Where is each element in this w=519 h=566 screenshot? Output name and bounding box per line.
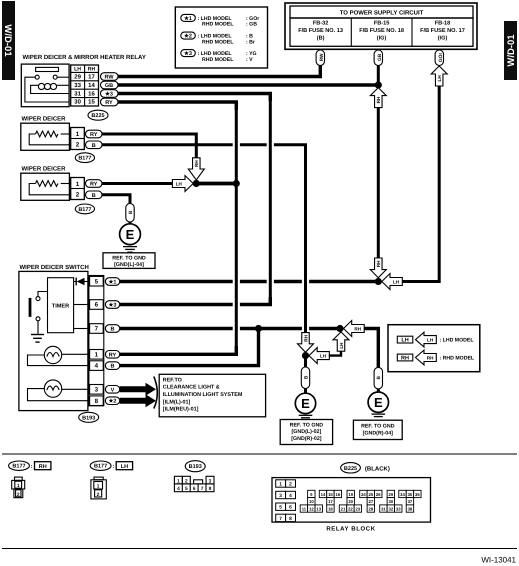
svg-text:★1: ★1 bbox=[109, 279, 117, 286]
connector B177 LH view bbox=[90, 461, 132, 499]
svg-text:[GND(L)-02]: [GND(L)-02] bbox=[292, 429, 322, 435]
svg-text:1: 1 bbox=[279, 481, 282, 487]
pin label star3 relay pin 31/16 bbox=[101, 90, 119, 98]
node pin4-pin7 junction bbox=[255, 325, 262, 332]
svg-text:: V: : V bbox=[246, 57, 253, 63]
svg-text::: : bbox=[31, 464, 33, 470]
svg-text:W/D-01: W/D-01 bbox=[506, 34, 517, 67]
pin label B switch pin 4 bbox=[105, 362, 119, 370]
svg-text:★1: ★1 bbox=[184, 15, 192, 22]
svg-text:REF. TO GND: REF. TO GND bbox=[290, 422, 324, 428]
svg-text:RY: RY bbox=[90, 132, 98, 138]
wire resistor right lead to pin 1 bbox=[61, 133, 71, 135]
svg-text:25: 25 bbox=[368, 492, 373, 497]
svg-text:RHD MODEL: RHD MODEL bbox=[202, 57, 234, 63]
svg-text:14: 14 bbox=[321, 492, 326, 497]
wire timer to pin 7 bbox=[74, 328, 90, 330]
svg-text:LH: LH bbox=[401, 338, 408, 344]
svg-text:36: 36 bbox=[415, 492, 420, 497]
svg-text:GOr: GOr bbox=[438, 53, 444, 62]
legend box star notes bbox=[175, 7, 267, 68]
wire relay right contact to RW row bbox=[57, 76, 69, 78]
svg-text:2: 2 bbox=[76, 142, 80, 149]
svg-text:WIPER DEICER & MIRROR HEATER R: WIPER DEICER & MIRROR HEATER RELAY bbox=[23, 54, 146, 61]
resistor element wiper deicer RH bbox=[36, 131, 58, 137]
svg-text:E: E bbox=[301, 396, 310, 411]
ref box clearance light & illumination light system bbox=[159, 374, 265, 417]
svg-text:LH: LH bbox=[176, 182, 183, 187]
svg-text:TO POWER SUPPLY CIRCUIT: TO POWER SUPPLY CIRCUIT bbox=[340, 10, 424, 17]
svg-text:2: 2 bbox=[97, 492, 100, 498]
svg-text:LH: LH bbox=[74, 67, 81, 73]
indicator lamp 1 bbox=[28, 346, 90, 365]
wire coil right to GB row bbox=[57, 84, 70, 86]
svg-text:6: 6 bbox=[289, 505, 292, 511]
svg-text:CLEARANCE LIGHT &: CLEARANCE LIGHT & bbox=[163, 385, 220, 391]
wire crossover casings bbox=[233, 110, 240, 346]
wiper deicer LH box bbox=[21, 173, 70, 200]
svg-text:6: 6 bbox=[95, 302, 99, 309]
node star1 feed junction bbox=[375, 278, 382, 285]
illumination lamp 2 bbox=[28, 380, 90, 401]
svg-text:RH: RH bbox=[354, 327, 361, 332]
svg-text:(B): (B) bbox=[317, 34, 325, 41]
svg-text:F/B FUSE NO. 18: F/B FUSE NO. 18 bbox=[359, 27, 404, 34]
wire GB fuse no.18 to relay 33/14 bbox=[377, 66, 380, 86]
svg-text:16: 16 bbox=[336, 492, 341, 497]
svg-text:26: 26 bbox=[376, 492, 381, 497]
svg-text:(IG): (IG) bbox=[377, 34, 387, 41]
svg-text:1: 1 bbox=[17, 483, 20, 489]
wire RY relay 30/15 to switch pin 1 bbox=[118, 102, 236, 354]
svg-text:FB-15: FB-15 bbox=[374, 20, 390, 26]
svg-text:1: 1 bbox=[97, 484, 100, 490]
pin label star1 switch pin 5 bbox=[105, 278, 119, 286]
ground E2 GND(R)-04 bbox=[353, 389, 402, 440]
svg-text:RH: RH bbox=[39, 464, 47, 470]
wire RY deicer LH pin 1 bbox=[102, 182, 172, 185]
wire resistor left lead to pin 2 bbox=[29, 184, 70, 195]
svg-text:REF. TO GND: REF. TO GND bbox=[112, 255, 146, 261]
svg-text:4: 4 bbox=[289, 493, 292, 499]
svg-text:WIPER DEICER: WIPER DEICER bbox=[22, 116, 67, 123]
svg-text:[GND(R)-02]: [GND(R)-02] bbox=[291, 436, 322, 442]
page tab W/D-01 top-right bbox=[504, 21, 517, 80]
svg-text:RH: RH bbox=[376, 96, 381, 103]
svg-text:2: 2 bbox=[289, 481, 292, 487]
pin label RY deicer LH pin 1 bbox=[86, 180, 103, 188]
svg-text:1: 1 bbox=[95, 351, 99, 358]
pin label GB fuse drop bbox=[374, 50, 383, 66]
pin label B deicer LH pin 2 bbox=[86, 191, 103, 199]
svg-text:RH: RH bbox=[303, 334, 308, 341]
wire star1 switch pin 5 feed bbox=[120, 280, 379, 283]
deicer LH pin block bbox=[71, 178, 85, 200]
wire arrow to illumination system pin 3 bbox=[120, 383, 156, 396]
svg-text:5: 5 bbox=[95, 278, 99, 285]
svg-text:LH: LH bbox=[393, 280, 400, 285]
svg-text:RH: RH bbox=[88, 67, 96, 73]
pin label B (ground junction wire) bbox=[301, 356, 309, 389]
svg-text:B: B bbox=[111, 327, 115, 333]
svg-text:GB: GB bbox=[377, 53, 383, 61]
arrow LH left (GOr to star1 feed) bbox=[382, 274, 403, 290]
separator line bbox=[2, 453, 517, 455]
svg-text:7: 7 bbox=[95, 326, 99, 333]
wire relay left contact to RY row bbox=[25, 77, 69, 102]
wiper deicer switch SW1 box bbox=[19, 271, 88, 410]
connector B225 label bbox=[88, 110, 108, 120]
svg-text:18: 18 bbox=[328, 506, 333, 511]
svg-text:LH: LH bbox=[121, 464, 128, 470]
connector B177 label (LH deicer) bbox=[75, 204, 94, 214]
ground symbol inside switch bbox=[31, 335, 44, 343]
arrow RH down (star1 feed) bbox=[370, 258, 386, 278]
node pin7 RH/LH junction bbox=[336, 325, 343, 332]
svg-text:LH: LH bbox=[339, 342, 344, 349]
pin label V switch pin 3 bbox=[105, 386, 119, 394]
svg-text:: RHD MODEL: : RHD MODEL bbox=[440, 356, 475, 362]
svg-text:5: 5 bbox=[279, 505, 282, 511]
svg-text:RH: RH bbox=[194, 160, 199, 167]
arrow RH up (GB feed top) bbox=[370, 88, 386, 108]
svg-text:31: 31 bbox=[381, 506, 386, 511]
svg-text:B: B bbox=[111, 364, 115, 370]
wire junction link redraw bbox=[196, 182, 236, 185]
pin label B switch pin 7 bbox=[105, 325, 119, 333]
svg-text:B: B bbox=[376, 376, 382, 380]
svg-text:RH: RH bbox=[401, 355, 409, 361]
legend box LH/RH model bbox=[388, 325, 480, 372]
arrow LH left (ground junction) bbox=[309, 348, 329, 364]
svg-text:★2: ★2 bbox=[184, 33, 192, 40]
svg-text:[GND(R)-04]: [GND(R)-04] bbox=[363, 431, 394, 437]
pin label GB relay pin 33/14 bbox=[101, 81, 119, 89]
node ground junction bbox=[302, 352, 309, 359]
wire junction link node RY bbox=[196, 182, 236, 185]
wire RY deicer RH pin 1 bbox=[102, 134, 196, 158]
pin label RY deicer RH pin 1 bbox=[86, 130, 103, 138]
wiper deicer RH box bbox=[21, 123, 70, 150]
svg-text:8: 8 bbox=[95, 398, 99, 405]
resistor element wiper deicer LH bbox=[36, 181, 58, 187]
connector B225 (BLACK) relay block view bbox=[272, 463, 431, 533]
svg-text:7: 7 bbox=[279, 516, 282, 522]
svg-text:30: 30 bbox=[74, 99, 81, 106]
bottom rule bbox=[2, 548, 517, 550]
svg-text:4: 4 bbox=[177, 486, 180, 492]
svg-text:19: 19 bbox=[348, 492, 353, 497]
wire B deicer RH pin 2 to ground bbox=[102, 145, 306, 333]
pin label star3 switch pin 6 bbox=[105, 301, 119, 309]
node RY deicer junction B bbox=[233, 180, 240, 187]
svg-text:F/B FUSE NO. 13: F/B FUSE NO. 13 bbox=[298, 27, 343, 34]
svg-text:22: 22 bbox=[348, 506, 353, 511]
svg-text::: : bbox=[112, 464, 114, 470]
svg-text:[GND(L)-04]: [GND(L)-04] bbox=[114, 262, 144, 268]
node RY deicer junction A bbox=[193, 180, 200, 187]
svg-text:RW: RW bbox=[104, 74, 114, 80]
svg-text:6: 6 bbox=[193, 486, 196, 492]
svg-text:15: 15 bbox=[328, 492, 333, 497]
svg-text:B225: B225 bbox=[344, 466, 357, 472]
svg-text:17: 17 bbox=[88, 74, 95, 81]
svg-text:RY: RY bbox=[90, 182, 98, 188]
svg-text:RY: RY bbox=[105, 100, 113, 106]
svg-text:29: 29 bbox=[74, 74, 81, 81]
svg-text:V: V bbox=[111, 387, 115, 393]
connector B177 RH view bbox=[9, 461, 51, 498]
switch contact S1 bbox=[30, 292, 48, 335]
arrow LH right (deicer LH junction) bbox=[172, 176, 193, 192]
wire GOr LH feed down bbox=[402, 86, 439, 282]
svg-text:RHD MODEL: RHD MODEL bbox=[202, 39, 234, 45]
svg-text:LH: LH bbox=[437, 75, 442, 82]
wire RW fuse no.13 to relay 29/17 bbox=[118, 66, 320, 77]
relay fixed contact bar bbox=[36, 67, 59, 71]
svg-text:RH: RH bbox=[427, 356, 434, 361]
svg-text:28: 28 bbox=[368, 506, 373, 511]
power supply box TO POWER SUPPLY CIRCUIT bbox=[285, 3, 477, 49]
pin label star2 switch pin 8 bbox=[105, 397, 119, 405]
relay pin table LH/RH bbox=[71, 65, 99, 106]
svg-text:7: 7 bbox=[201, 486, 204, 492]
svg-text:31: 31 bbox=[74, 90, 81, 97]
wire B switch pin 4 bbox=[120, 329, 259, 366]
svg-text:2: 2 bbox=[17, 492, 20, 498]
svg-text:B: B bbox=[303, 375, 309, 379]
svg-text:WIPER DEICER SWITCH: WIPER DEICER SWITCH bbox=[20, 264, 89, 271]
svg-text:17: 17 bbox=[328, 499, 333, 504]
svg-text:(BLACK): (BLACK) bbox=[365, 465, 390, 472]
svg-text:3: 3 bbox=[279, 493, 282, 499]
pin label B (deicer LH ground wire) bbox=[126, 204, 134, 223]
svg-text:B193: B193 bbox=[82, 415, 95, 421]
svg-text:3: 3 bbox=[95, 386, 99, 393]
svg-text:B177: B177 bbox=[78, 207, 91, 213]
relay K1 wiper deicer & mirror heater relay box bbox=[21, 64, 69, 107]
wire timer to pin 6 bbox=[74, 304, 90, 306]
wire B switch pin 7 bbox=[120, 327, 340, 330]
svg-text:WI-13041: WI-13041 bbox=[481, 556, 516, 565]
svg-text:24: 24 bbox=[361, 492, 366, 497]
svg-text:16: 16 bbox=[88, 90, 95, 97]
pin label B (pin7 RH ground wire) bbox=[374, 367, 382, 389]
svg-text:★3: ★3 bbox=[184, 50, 192, 57]
pin label GOr fuse drop bbox=[435, 50, 444, 66]
fuse FB-18 F/B FUSE NO.17 (IG) bbox=[420, 20, 465, 41]
svg-text:20: 20 bbox=[348, 499, 353, 504]
svg-text:B177: B177 bbox=[78, 156, 91, 162]
svg-text:RELAY BLOCK: RELAY BLOCK bbox=[326, 526, 375, 533]
svg-text:14: 14 bbox=[88, 82, 95, 89]
svg-text:35: 35 bbox=[408, 492, 413, 497]
wire resistor left lead to pin 2 bbox=[29, 134, 70, 145]
svg-text:27: 27 bbox=[368, 499, 373, 504]
svg-text:RHD MODEL: RHD MODEL bbox=[202, 22, 234, 28]
svg-text:★2: ★2 bbox=[109, 398, 117, 405]
wire LH branch link at pin7 bbox=[329, 351, 341, 355]
node GB-relay junction bbox=[375, 81, 382, 88]
connector B193 label bbox=[79, 412, 99, 422]
page tab W/D-01 top-left bbox=[2, 1, 15, 80]
arrow RH left (pin7 junction) bbox=[344, 321, 365, 337]
svg-text:REF. TO GND: REF. TO GND bbox=[361, 423, 395, 429]
svg-text:30: 30 bbox=[388, 499, 393, 504]
svg-text:E: E bbox=[374, 395, 383, 410]
svg-text:5: 5 bbox=[185, 486, 188, 492]
svg-text:32: 32 bbox=[388, 506, 393, 511]
pin label RY relay pin 30/15 bbox=[101, 98, 119, 106]
ground E1 GND(L)-02 GND(R)-02 bbox=[280, 389, 332, 445]
svg-text:TIMER: TIMER bbox=[52, 304, 69, 310]
svg-text:: GB: : GB bbox=[246, 22, 257, 28]
svg-text:: Br: : Br bbox=[246, 39, 255, 45]
svg-text:37: 37 bbox=[408, 499, 413, 504]
pin label RW relay pin 29/17 bbox=[101, 73, 119, 81]
svg-text:23: 23 bbox=[356, 506, 361, 511]
svg-text:★3: ★3 bbox=[109, 302, 117, 309]
arrow LH up (pin7 junction) bbox=[333, 332, 349, 351]
svg-text:★3: ★3 bbox=[105, 90, 113, 97]
svg-text:B193: B193 bbox=[189, 464, 202, 470]
svg-text:GB: GB bbox=[105, 83, 113, 89]
svg-text:34: 34 bbox=[400, 492, 405, 497]
svg-text:21: 21 bbox=[341, 506, 346, 511]
pin label RY switch pin 1 bbox=[105, 351, 119, 359]
timer unit box bbox=[48, 278, 74, 333]
svg-text:: LHD MODEL: : LHD MODEL bbox=[440, 338, 475, 344]
pin label RW fuse drop bbox=[316, 50, 325, 66]
wire coil left to star3 row bbox=[31, 85, 70, 93]
svg-text:2: 2 bbox=[76, 192, 80, 199]
connector B193 view bbox=[174, 461, 214, 492]
fuse FB-32 F/B FUSE NO.13 (B) bbox=[298, 20, 343, 41]
svg-text:B: B bbox=[92, 143, 96, 149]
svg-text:RH: RH bbox=[376, 260, 381, 267]
svg-text:8: 8 bbox=[209, 486, 212, 492]
svg-text:RW: RW bbox=[319, 53, 325, 61]
svg-text:12: 12 bbox=[309, 506, 314, 511]
svg-text:10: 10 bbox=[309, 499, 314, 504]
svg-text:1: 1 bbox=[76, 181, 80, 188]
wire B deicer LH pin 2 to ground bbox=[102, 195, 130, 204]
svg-text:FB-18: FB-18 bbox=[435, 20, 451, 26]
svg-text:WIPER DEICER: WIPER DEICER bbox=[22, 166, 67, 173]
connector B177 label (RH deicer) bbox=[75, 153, 94, 163]
svg-text:ILLUMINATION LIGHT SYSTEM: ILLUMINATION LIGHT SYSTEM bbox=[163, 392, 243, 398]
svg-text:11: 11 bbox=[302, 506, 307, 511]
svg-text:38: 38 bbox=[408, 506, 413, 511]
svg-text:8: 8 bbox=[289, 516, 292, 522]
svg-text:33: 33 bbox=[74, 82, 81, 89]
pin label B deicer RH pin 2 bbox=[86, 141, 103, 149]
svg-text:LH: LH bbox=[320, 354, 327, 359]
wire star3 relay 31/16 to switch pin 6 bbox=[118, 94, 270, 305]
ground E (deicer LH) GND(L)-04 bbox=[103, 222, 155, 268]
relay coil L1 bbox=[38, 83, 56, 89]
svg-text:B225: B225 bbox=[91, 113, 104, 119]
wire GB RH feed down bbox=[377, 107, 380, 258]
wire arrow to illumination system pin 8 bbox=[120, 394, 156, 407]
wire B pin 7 RH branch to ground bbox=[364, 329, 378, 368]
svg-text:B: B bbox=[128, 210, 134, 214]
arrow RH down (ground junction) bbox=[298, 333, 314, 353]
switch connector pin column bbox=[89, 276, 104, 406]
svg-text:4: 4 bbox=[95, 363, 99, 370]
arrow RH down (deicer RH junction) bbox=[188, 158, 204, 180]
svg-text:15: 15 bbox=[88, 99, 95, 106]
svg-text:[ILM(L)-01]: [ILM(L)-01] bbox=[163, 399, 191, 405]
svg-text:13: 13 bbox=[316, 506, 321, 511]
arrow LH up (GOr feed top) bbox=[431, 66, 447, 86]
deicer RH pin block bbox=[71, 128, 85, 150]
svg-text:W/D-01: W/D-01 bbox=[2, 24, 13, 57]
svg-text:(IG): (IG) bbox=[438, 34, 448, 41]
svg-text:LH: LH bbox=[427, 338, 434, 343]
relay contact circle right bbox=[53, 75, 57, 79]
svg-text:B: B bbox=[92, 193, 96, 199]
svg-text:33: 33 bbox=[396, 506, 401, 511]
wire resistor right lead to pin 1 bbox=[61, 183, 71, 185]
fuse FB-15 F/B FUSE NO.18 (IG) bbox=[359, 20, 404, 41]
svg-text:REF.TO: REF.TO bbox=[163, 377, 182, 383]
svg-text:F/B FUSE NO. 17: F/B FUSE NO. 17 bbox=[420, 27, 465, 34]
relay contact circle left bbox=[35, 75, 39, 79]
svg-text:RY: RY bbox=[109, 352, 117, 358]
svg-text:[ILM(REU)-01]: [ILM(REU)-01] bbox=[163, 407, 199, 413]
svg-text:FB-32: FB-32 bbox=[313, 20, 329, 26]
diode D1 bbox=[74, 278, 90, 286]
svg-text:B177: B177 bbox=[94, 464, 107, 470]
svg-text:29: 29 bbox=[388, 492, 393, 497]
svg-text:B177: B177 bbox=[12, 464, 25, 470]
brace paren bbox=[154, 377, 158, 409]
svg-text:E: E bbox=[126, 227, 135, 242]
svg-text:1: 1 bbox=[76, 131, 80, 138]
